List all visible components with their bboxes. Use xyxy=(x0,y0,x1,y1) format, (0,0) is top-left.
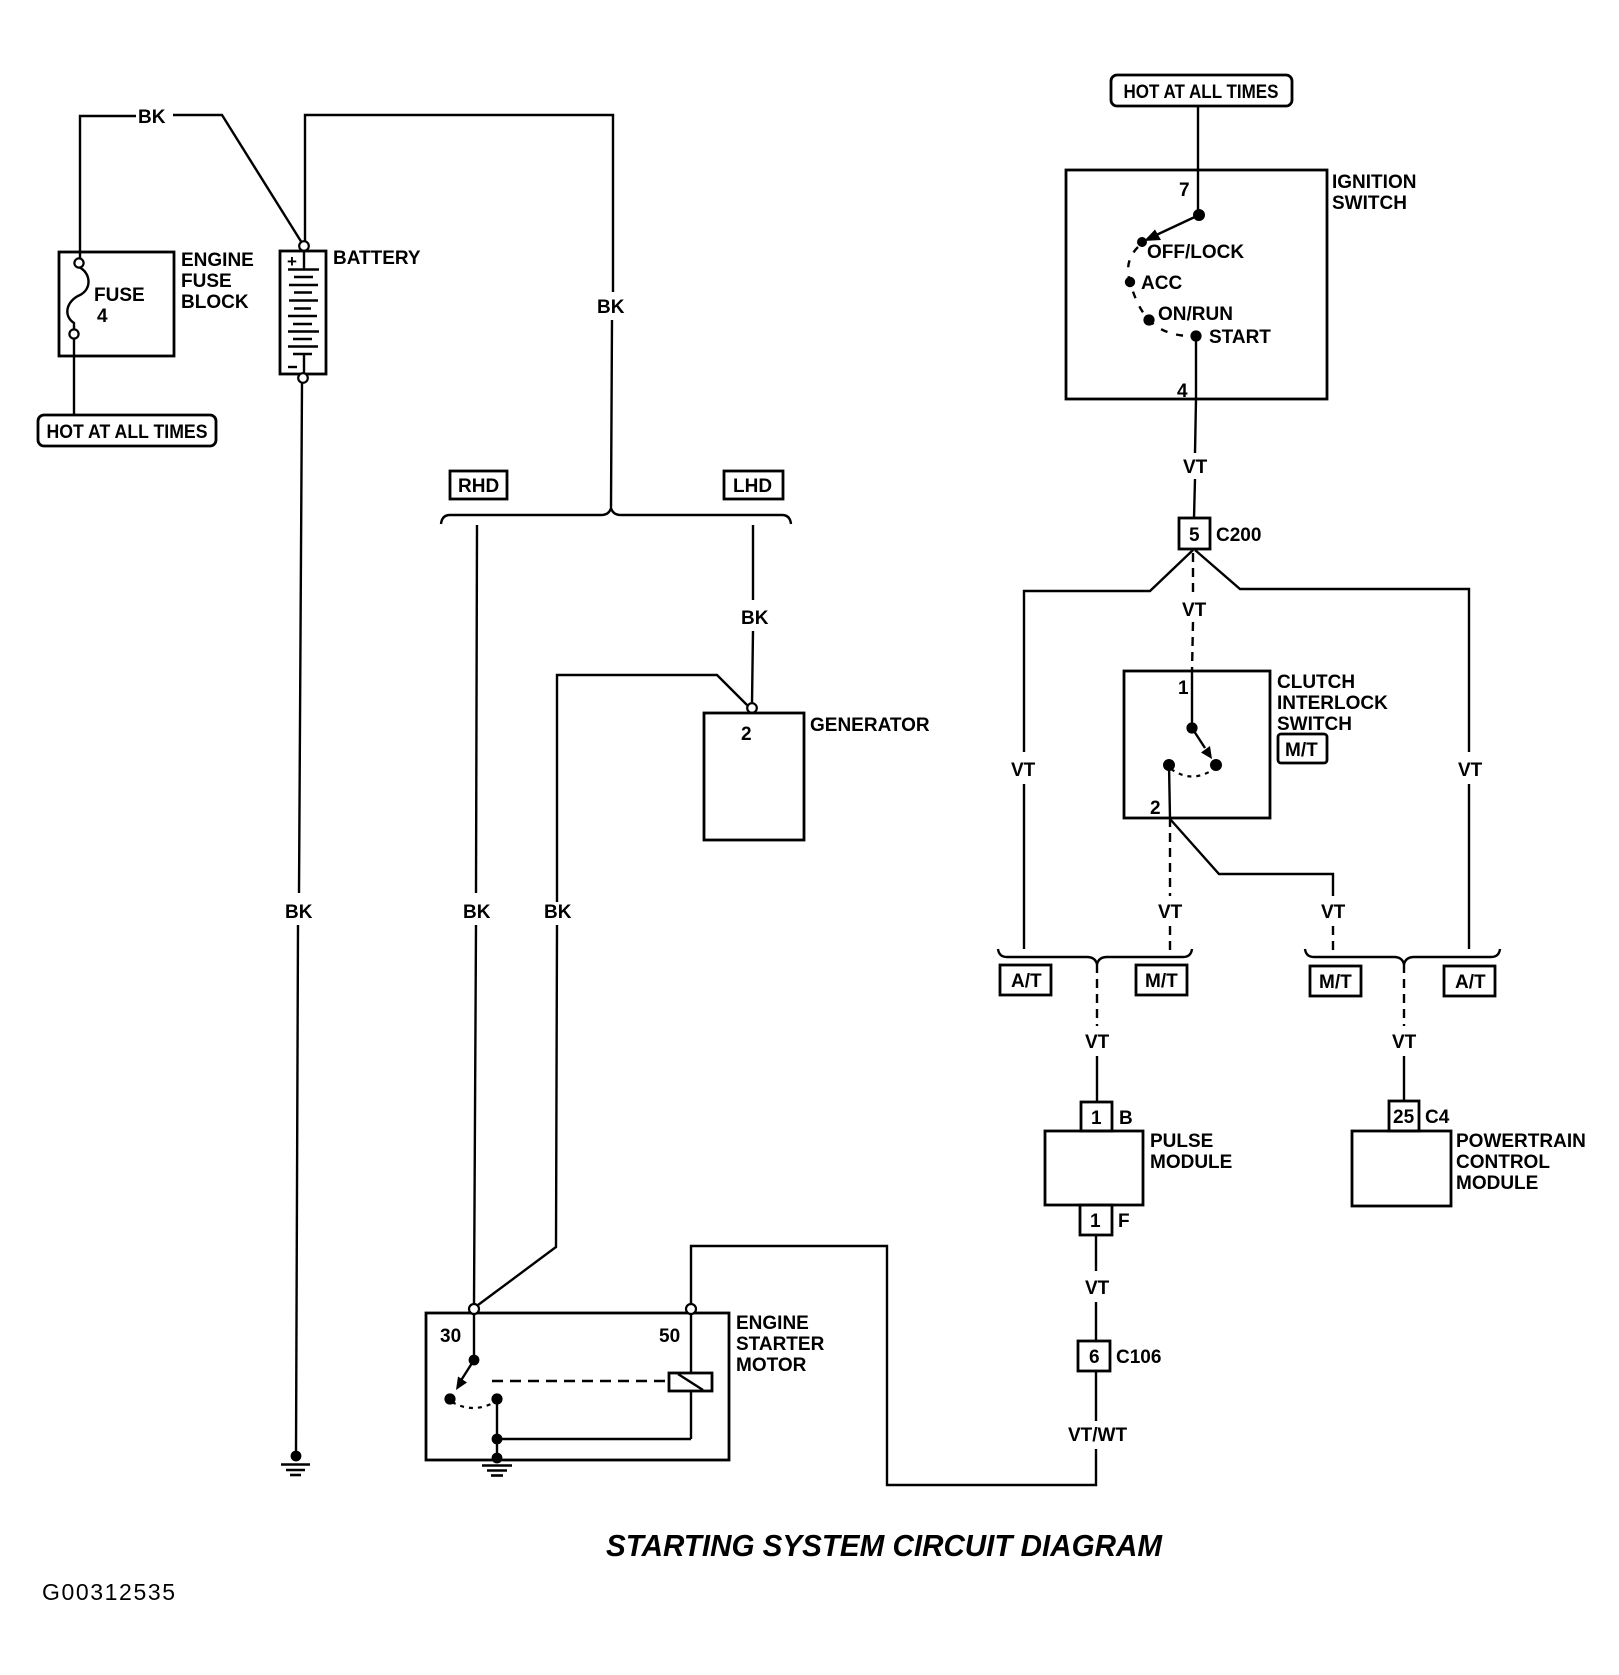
svg-text:BK: BK xyxy=(138,107,166,128)
svg-text:FUSE: FUSE xyxy=(94,285,145,306)
brace RHD/LHD xyxy=(441,508,791,524)
svg-text:50: 50 xyxy=(659,1326,680,1347)
wire RHD down xyxy=(476,525,477,893)
svg-text:6: 6 xyxy=(1089,1347,1100,1368)
svg-text:C4: C4 xyxy=(1425,1107,1450,1128)
wire 50 terminal loop to C106 xyxy=(691,1246,1096,1485)
wire BK to battery positive xyxy=(173,115,302,243)
svg-text:VT: VT xyxy=(1085,1032,1110,1053)
svg-text:A/T: A/T xyxy=(1011,971,1042,992)
wire junction to relay coil bottom xyxy=(497,1438,691,1440)
engine fuse block box xyxy=(59,252,174,356)
brace left A/T M/T xyxy=(998,949,1192,964)
svg-text:SWITCH: SWITCH xyxy=(1332,193,1407,214)
HOT AT ALL TIMES box right xyxy=(1111,75,1292,106)
wire brace to pulse module xyxy=(1096,964,1098,1026)
svg-text:MODULE: MODULE xyxy=(1456,1173,1538,1194)
wire down to brace xyxy=(611,320,612,507)
wire C106 up xyxy=(1095,1302,1097,1341)
A/T box xyxy=(1000,965,1051,995)
svg-text:25: 25 xyxy=(1393,1107,1415,1128)
dashed arc positions xyxy=(1128,247,1190,336)
wire LHD to generator xyxy=(752,631,753,703)
wire up to pulse module pin F xyxy=(1095,1236,1097,1271)
svg-text:OFF/LOCK: OFF/LOCK xyxy=(1147,242,1244,263)
svg-text:C200: C200 xyxy=(1216,525,1261,546)
wire into clutch switch xyxy=(1191,671,1193,725)
clutch switch arm with arrow xyxy=(1192,728,1205,748)
svg-text:VT: VT xyxy=(1321,902,1346,923)
M/T tag box xyxy=(1278,734,1327,763)
generator xyxy=(747,703,757,713)
ground battery xyxy=(291,1451,302,1462)
clutch throw contact xyxy=(1163,759,1175,771)
svg-text:VT/WT: VT/WT xyxy=(1068,1425,1127,1446)
svg-text:LHD: LHD xyxy=(733,476,772,497)
wire junction to ground xyxy=(496,1439,498,1457)
svg-text:4: 4 xyxy=(1177,381,1188,402)
svg-text:5: 5 xyxy=(1189,525,1200,546)
ignition rotor contact xyxy=(1193,209,1205,221)
A/T box right xyxy=(1444,966,1495,996)
svg-text:HOT AT ALL TIMES: HOT AT ALL TIMES xyxy=(1124,82,1279,103)
pulse module pin 1 F xyxy=(1080,1205,1112,1235)
svg-text:HOT AT ALL TIMES: HOT AT ALL TIMES xyxy=(47,422,208,443)
switch arm with arrow xyxy=(460,1360,474,1382)
svg-text:VT: VT xyxy=(1085,1278,1110,1299)
relay coil xyxy=(669,1373,712,1391)
dashed link switch to coil xyxy=(492,1380,666,1382)
svg-text:A/T: A/T xyxy=(1455,972,1486,993)
fuse 4 symbol xyxy=(67,267,88,329)
svg-text:2: 2 xyxy=(1150,798,1161,819)
svg-text:POWERTRAIN: POWERTRAIN xyxy=(1456,1131,1586,1152)
svg-text:VT: VT xyxy=(1392,1032,1417,1053)
ignition switch box xyxy=(1066,170,1327,399)
RHD box xyxy=(450,471,507,499)
svg-text:CLUTCH: CLUTCH xyxy=(1277,672,1355,693)
wire fan left xyxy=(1024,550,1193,752)
ground starter xyxy=(492,1453,503,1464)
wire HOT to ignition switch xyxy=(1197,106,1199,213)
svg-text:+: + xyxy=(287,252,297,271)
svg-text:F: F xyxy=(1118,1211,1130,1232)
svg-text:CONTROL: CONTROL xyxy=(1456,1152,1550,1173)
svg-text:PULSE: PULSE xyxy=(1150,1131,1213,1152)
svg-text:VT: VT xyxy=(1458,760,1483,781)
svg-text:ENGINE: ENGINE xyxy=(181,250,254,271)
svg-text:BK: BK xyxy=(544,902,572,923)
wire to ground xyxy=(296,925,298,1453)
wire fuse up to BK xyxy=(80,116,136,258)
M/T box right xyxy=(1310,966,1361,996)
clutch interlock switch box xyxy=(1124,671,1270,818)
svg-text:STARTER: STARTER xyxy=(736,1334,825,1355)
position START xyxy=(1190,330,1201,341)
svg-text:INTERLOCK: INTERLOCK xyxy=(1277,693,1388,714)
svg-text:VT: VT xyxy=(1158,902,1183,923)
terminal 30 xyxy=(469,1304,479,1314)
wire up to C106 xyxy=(1095,1372,1097,1421)
wire pin 2 down xyxy=(1169,818,1171,896)
wire LHD down xyxy=(752,525,754,600)
svg-text:2: 2 xyxy=(741,724,752,745)
wire generator to starter xyxy=(557,675,748,902)
svg-text:MOTOR: MOTOR xyxy=(736,1355,807,1376)
wire ignition to C200 xyxy=(1195,399,1196,453)
position OFF/LOCK xyxy=(1137,237,1147,247)
M/T box xyxy=(1136,965,1187,995)
terminal 50 xyxy=(686,1304,696,1314)
wire fan right xyxy=(1195,550,1469,752)
svg-text:ON/RUN: ON/RUN xyxy=(1158,304,1233,325)
svg-text:STARTING SYSTEM CIRCUIT DIAGRA: STARTING SYSTEM CIRCUIT DIAGRAM xyxy=(606,1528,1163,1563)
svg-text:BK: BK xyxy=(285,902,313,923)
svg-text:1: 1 xyxy=(1090,1211,1101,1232)
engine starter motor box xyxy=(426,1313,729,1460)
wire RHD to starter 30 xyxy=(474,925,476,1304)
svg-text:M/T: M/T xyxy=(1319,972,1352,993)
svg-text:BLOCK: BLOCK xyxy=(181,292,249,313)
dashed arc clutch xyxy=(1171,769,1214,777)
wire contact down to junction xyxy=(496,1399,498,1439)
svg-text:7: 7 xyxy=(1179,180,1190,201)
svg-text:BK: BK xyxy=(463,902,491,923)
wire battery negative down xyxy=(299,383,302,893)
powertrain pin 25 C4 xyxy=(1389,1101,1419,1131)
svg-text:VT: VT xyxy=(1182,600,1207,621)
svg-text:FUSE: FUSE xyxy=(181,271,232,292)
wire fan center dashed xyxy=(1192,553,1194,598)
wire START down xyxy=(1195,341,1197,399)
svg-text:4: 4 xyxy=(97,306,108,327)
LHD box xyxy=(724,471,783,499)
svg-text:C106: C106 xyxy=(1116,1347,1161,1368)
wire 50 to coil xyxy=(690,1314,692,1373)
wire brace to powertrain module xyxy=(1403,964,1405,1026)
svg-text:1: 1 xyxy=(1178,678,1189,699)
wire 30 to switch contact xyxy=(473,1314,475,1357)
switch throw contact xyxy=(491,1393,502,1404)
wire battery positive up and right xyxy=(305,115,613,292)
svg-text:M/T: M/T xyxy=(1145,971,1178,992)
ignition arm with arrow xyxy=(1152,215,1199,237)
battery xyxy=(299,241,309,251)
brace right M/T A/T xyxy=(1305,949,1500,964)
connector C200 xyxy=(1179,518,1210,549)
svg-text:GENERATOR: GENERATOR xyxy=(810,715,930,736)
svg-text:30: 30 xyxy=(440,1326,461,1347)
pulse module box xyxy=(1045,1131,1143,1205)
svg-text:1: 1 xyxy=(1091,1108,1102,1129)
wire pin 2 branch right xyxy=(1170,819,1333,896)
pulse module pin 1 B xyxy=(1081,1102,1112,1131)
wire fuse to HOT AT ALL TIMES xyxy=(73,339,75,415)
svg-text:ENGINE: ENGINE xyxy=(736,1313,809,1334)
position ACC xyxy=(1125,277,1135,287)
svg-text:IGNITION: IGNITION xyxy=(1332,172,1416,193)
svg-text:RHD: RHD xyxy=(458,476,499,497)
position ON/RUN xyxy=(1143,314,1154,325)
svg-text:G00312535: G00312535 xyxy=(42,1579,177,1605)
svg-text:BATTERY: BATTERY xyxy=(333,248,421,269)
svg-text:BK: BK xyxy=(741,608,769,629)
svg-text:VT: VT xyxy=(1183,457,1208,478)
dashed arc switch xyxy=(452,1402,495,1408)
HOT AT ALL TIMES box left xyxy=(38,415,216,446)
svg-text:M/T: M/T xyxy=(1285,740,1318,761)
svg-text:VT: VT xyxy=(1011,760,1036,781)
svg-text:ACC: ACC xyxy=(1141,273,1182,294)
svg-text:MODULE: MODULE xyxy=(1150,1152,1232,1173)
svg-text:START: START xyxy=(1209,327,1271,348)
connector C106 xyxy=(1078,1341,1110,1371)
wire down to starter 30 xyxy=(478,925,557,1305)
svg-text:BK: BK xyxy=(597,297,625,318)
svg-text:B: B xyxy=(1119,1108,1133,1129)
powertrain control module box xyxy=(1352,1131,1451,1206)
wire contact to pin 2 xyxy=(1169,765,1170,818)
svg-text:SWITCH: SWITCH xyxy=(1277,714,1352,735)
